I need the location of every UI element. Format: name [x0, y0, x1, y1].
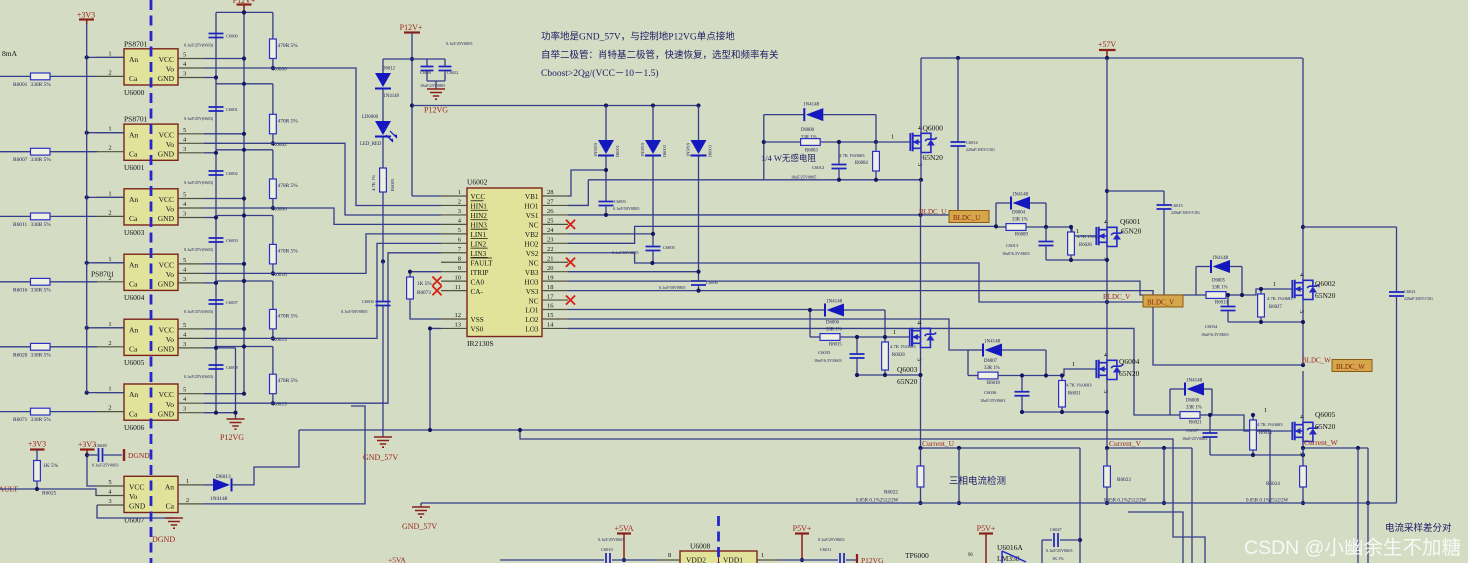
svg-text:1N4148: 1N4148	[803, 103, 820, 108]
pin 3 stub U6001	[178, 152, 204, 154]
node C6037 top	[1208, 413, 1212, 417]
svg-text:27: 27	[547, 199, 554, 206]
svg-text:C6010: C6010	[601, 547, 614, 552]
wire decoupling chain vertical x=216	[215, 12, 217, 412]
svg-text:C6001: C6001	[226, 107, 238, 112]
node rail/+12V bus row U6001	[242, 82, 246, 86]
node R6034 bottom	[1251, 453, 1255, 457]
optocoupler U6003 PS8701 body	[124, 189, 178, 225]
svg-text:An: An	[165, 483, 174, 492]
wire P12VG rail y=105.5	[412, 105, 699, 107]
pin 4 stub U6004	[178, 272, 204, 274]
no-connect X pin 10	[432, 277, 441, 286]
node Q6002 source / rail	[1301, 320, 1305, 324]
svg-text:HO1: HO1	[525, 203, 539, 211]
pin 10 (CA0) U6002	[441, 280, 467, 282]
svg-text:10uF/25V0805: 10uF/25V0805	[420, 83, 445, 88]
svg-text:330R 5%: 330R 5%	[31, 222, 52, 228]
node R6014 / Vo wire	[271, 336, 275, 340]
svg-text:Ca: Ca	[129, 74, 138, 83]
resistor R6005 4.7K 1%	[382, 138, 384, 169]
node C6036 bottom	[1020, 410, 1024, 414]
wire U6007 Ca run	[204, 406, 365, 504]
svg-text:1N5819: 1N5819	[686, 142, 691, 157]
net label BLDC_U (boxed)	[949, 211, 989, 223]
node P12V+ junction	[242, 10, 246, 14]
pin 1 stub U6006	[97, 392, 124, 394]
svg-text:13: 13	[455, 322, 462, 329]
pin 16 (LO1) U6002	[542, 309, 568, 311]
pin 5 stub U6007	[97, 485, 124, 487]
wire Q6005 gate right node	[1211, 389, 1213, 415]
svg-text:0.1uF/50V0805: 0.1uF/50V0805	[659, 285, 685, 290]
resistor R6021 33R 1%	[1170, 414, 1180, 416]
svg-text:C6036: C6036	[984, 390, 997, 395]
svg-text:GND: GND	[158, 74, 175, 83]
no-connect X pin 17	[566, 295, 575, 304]
svg-text:Ca: Ca	[129, 280, 138, 289]
optocoupler U6006 PS8701 body	[124, 384, 178, 420]
svg-text:D6013: D6013	[216, 474, 231, 480]
svg-text:R6003: R6003	[805, 149, 818, 154]
capacitor C6006 0.1uF/50V0805	[698, 157, 700, 282]
pin 28 (VB1) U6002	[542, 195, 568, 197]
svg-text:R6022: R6022	[884, 490, 898, 496]
wire U6000 Vo to U6002 HIN1	[204, 68, 441, 206]
svg-text:VCC: VCC	[159, 325, 174, 334]
pin 11 (CA-) U6002	[441, 290, 467, 292]
pin 21 (NC) U6002	[542, 261, 568, 263]
capacitor C6003 0.1uF/50V0805	[605, 157, 607, 202]
node R6028 top	[883, 335, 887, 339]
svg-text:2: 2	[458, 199, 461, 206]
svg-text:An: An	[129, 130, 138, 139]
svg-text:P12VG: P12VG	[861, 556, 884, 563]
svg-text:An: An	[129, 390, 138, 399]
svg-text:LIN1: LIN1	[471, 231, 487, 239]
wire Q6001 gate jog	[1046, 227, 1096, 236]
node chain / U6006 GND	[214, 411, 218, 415]
svg-text:D6002: D6002	[662, 145, 667, 157]
node +57V / phase V column	[1105, 56, 1109, 60]
pin 8 (FAULT) U6002	[441, 261, 467, 263]
node P5V+ / VDD1	[800, 558, 804, 562]
node C6012 top	[837, 140, 841, 144]
svg-text:1: 1	[108, 50, 111, 57]
pin 9 (ITRIP) U6002	[441, 271, 467, 273]
svg-text:VS1: VS1	[526, 212, 539, 220]
diode D6002 1N5819 (bootstrap)	[652, 106, 654, 141]
svg-text:0.1uF/25V(0603): 0.1uF/25V(0603)	[184, 116, 214, 121]
gate driver U6002 IR2130S body	[467, 188, 542, 337]
svg-text:VB1: VB1	[525, 193, 539, 201]
no-connect X pin 25	[566, 220, 575, 229]
svg-text:C6014: C6014	[966, 140, 979, 145]
node LO1 entry	[808, 308, 812, 312]
svg-text:1: 1	[186, 478, 189, 485]
resistor R6014 470R 5%	[272, 281, 274, 309]
svg-text:1: 1	[1273, 281, 1276, 288]
capacitor C6005 0.1uF/50V0805	[652, 157, 654, 247]
svg-text:25: 25	[547, 218, 554, 225]
wire HO3 net (pin19 to Q6002 gate network)	[568, 281, 1196, 295]
wire Q6001 gate left node	[995, 203, 997, 227]
svg-text:C6003: C6003	[614, 199, 627, 204]
wire VB1 net (pin28 to D6001)	[568, 170, 606, 196]
svg-text:C6022: C6022	[447, 70, 458, 75]
svg-text:0.1uF/25V(0603): 0.1uF/25V(0603)	[184, 43, 214, 48]
svg-text:R6031: R6031	[1068, 392, 1081, 397]
wire P5V+ stem (op-amp)	[985, 534, 987, 563]
wire +5VA stem	[623, 534, 625, 561]
svg-text:C6034: C6034	[1205, 324, 1218, 329]
wire Q6001 source rail y=260	[1046, 259, 1107, 261]
capacitor C6012 10uF/25V0805	[838, 142, 840, 165]
svg-text:VDD1: VDD1	[723, 556, 743, 563]
svg-text:三相电流检测: 三相电流检测	[949, 475, 1006, 487]
svg-text:15: 15	[547, 312, 554, 319]
no-connect X pin 11	[432, 286, 441, 295]
ground GND_57V (rail left end)	[420, 503, 422, 507]
node R6019 / Vo wire	[271, 401, 275, 405]
svg-text:1: 1	[1072, 361, 1075, 368]
svg-text:U6004: U6004	[124, 293, 145, 302]
wire Current_V row	[1107, 447, 1192, 449]
svg-text:3: 3	[916, 358, 923, 361]
svg-text:26: 26	[547, 208, 554, 215]
node P12VG rail	[410, 103, 414, 107]
wire Current_W row	[1303, 447, 1368, 449]
svg-text:U6006: U6006	[124, 423, 145, 432]
resistor R6001 330R 5%	[0, 75, 97, 77]
svg-text:VS3: VS3	[526, 288, 539, 296]
svg-text:R6073: R6073	[417, 290, 431, 296]
node HO2 entry	[994, 224, 998, 228]
svg-text:0.1uF/25V0603: 0.1uF/25V0603	[446, 41, 472, 46]
svg-text:GND: GND	[158, 150, 175, 159]
no-connect X pin 21	[566, 258, 575, 267]
node P12V+ / +12V row	[410, 57, 414, 61]
pin 15 (LO2) U6002	[542, 318, 568, 320]
svg-text:R6013: R6013	[1215, 301, 1228, 306]
resistor R6011 330R 5%	[0, 215, 97, 217]
capacitor C6022 10uF/25V0805	[444, 59, 446, 67]
svg-text:HO3: HO3	[525, 278, 539, 286]
pin 20 (VB3) U6002	[542, 271, 568, 273]
svg-text:BLDC_W: BLDC_W	[1302, 357, 1331, 365]
svg-text:Q6001: Q6001	[1120, 217, 1141, 226]
svg-text:3: 3	[183, 71, 186, 78]
pin 1 stub U6004	[97, 262, 124, 264]
svg-text:5: 5	[183, 192, 186, 199]
svg-text:P12VG: P12VG	[424, 106, 448, 115]
svg-text:28: 28	[547, 189, 554, 196]
svg-text:BLDC_V: BLDC_V	[1147, 299, 1174, 307]
wire Q6003 gate	[885, 336, 910, 338]
node R6031 bottom	[1060, 410, 1064, 414]
svg-text:1: 1	[108, 321, 111, 328]
svg-text:NC: NC	[529, 222, 539, 230]
wire An of U6001 to +3V3 bus	[87, 132, 124, 134]
pin 6 (LIN2) U6002	[441, 242, 467, 244]
svg-text:C6013: C6013	[1006, 243, 1019, 248]
svg-text:VCC: VCC	[159, 195, 174, 204]
wire GND_57V rail y=503	[421, 502, 1397, 504]
node Current_W / signal riser	[1356, 446, 1360, 450]
svg-text:U6001: U6001	[124, 163, 145, 172]
svg-text:Ca: Ca	[166, 502, 175, 511]
svg-text:GND: GND	[158, 280, 175, 289]
node BLDC_V phase column	[1105, 300, 1109, 304]
resistor R6016 330R 5%	[0, 281, 97, 283]
pin 2 stub U6003	[97, 215, 124, 217]
wire P12VG drop vertical x=235.5	[235, 348, 237, 419]
svg-text:VB3: VB3	[525, 269, 539, 277]
svg-text:2: 2	[108, 340, 111, 347]
node R6022 / GND rail	[918, 501, 922, 505]
svg-text:5: 5	[183, 127, 186, 134]
svg-text:An: An	[129, 195, 138, 204]
capacitor C6047 0.1uF/25V0603	[1041, 540, 1043, 563]
svg-text:470R 5%: 470R 5%	[278, 313, 299, 319]
node rail/+12V bus row U6006	[242, 344, 246, 348]
pin 19 (HO3) U6002	[542, 280, 568, 282]
svg-text:2: 2	[108, 209, 111, 216]
svg-text:DGND: DGND	[152, 535, 175, 544]
svg-text:D6003: D6003	[708, 144, 713, 157]
node FAULT / LED chain	[381, 259, 385, 263]
wire HO2 net (pin23 to Q6001 gate network)	[568, 226, 996, 243]
pin 1 stub U6001	[97, 132, 124, 134]
svg-text:GND: GND	[158, 214, 175, 223]
svg-text:C6035: C6035	[818, 350, 831, 355]
svg-text:0.1uF/25V0603: 0.1uF/25V0603	[1046, 548, 1072, 553]
svg-text:VS2: VS2	[526, 250, 539, 258]
wire Q6004 gate right node	[1045, 350, 1047, 376]
pin 3 stub U6004	[178, 282, 204, 284]
capacitor C6013 10uF/6.3V/0603	[1045, 227, 1047, 242]
node chain / U6004 GND	[214, 281, 218, 285]
node D6000/R6003 left	[762, 140, 766, 144]
svg-text:BLDC_U: BLDC_U	[919, 208, 946, 216]
resistor R6023 0.05R 0.1% 2512 2W	[1106, 448, 1108, 466]
svg-text:CSDN @小幽余生不加糖: CSDN @小幽余生不加糖	[1244, 537, 1461, 559]
pin 7 (LIN3) U6002	[441, 252, 467, 254]
svg-text:R6021: R6021	[1189, 421, 1202, 426]
svg-text:220nF/100V/C0G: 220nF/100V/C0G	[1171, 210, 1200, 215]
svg-text:+3V3: +3V3	[78, 440, 96, 449]
wire Q6005 source	[1302, 442, 1304, 449]
node +12V bus / U6000 VCC	[242, 56, 246, 60]
svg-text:D6004: D6004	[1012, 211, 1026, 216]
svg-text:65N20: 65N20	[1121, 227, 1142, 236]
svg-text:3: 3	[1102, 390, 1109, 393]
diode D6000 1N4148	[764, 114, 805, 116]
pin 3 stub U6003	[178, 217, 204, 219]
svg-text:8mA: 8mA	[2, 49, 18, 58]
node +12V bus / U6001 VCC	[242, 132, 246, 136]
pin 3 stub U6006	[178, 412, 204, 414]
svg-text:NC: NC	[529, 297, 539, 305]
svg-text:Vo: Vo	[129, 492, 137, 501]
pin 5 stub U6000	[178, 58, 204, 60]
svg-text:U6003: U6003	[124, 228, 145, 237]
wire VB2 net (pin24 to D6002)	[568, 233, 653, 235]
svg-text:C6004: C6004	[362, 299, 375, 304]
svg-text:R6020: R6020	[13, 352, 28, 358]
svg-text:3: 3	[1298, 310, 1305, 313]
resistor R6025 1K 5%	[36, 450, 38, 461]
node R6028 bottom	[883, 373, 887, 377]
node C6015 tap	[1105, 189, 1109, 193]
svg-text:65N20: 65N20	[1315, 291, 1336, 300]
svg-text:3: 3	[183, 146, 186, 153]
pin 3 (HIN2) U6002	[441, 214, 467, 216]
svg-text:D6012: D6012	[382, 67, 396, 72]
digital isolator U6008 body	[680, 551, 757, 563]
wire top rail y=12 to 470R column	[216, 11, 273, 13]
pin 25 (NC) U6002	[542, 223, 568, 225]
svg-text:470R 5%: 470R 5%	[278, 248, 299, 254]
node rail/+12V bus row U6005	[242, 279, 246, 283]
node +57V / C6014	[956, 56, 960, 60]
node +3V3 bus / U6001 An	[85, 131, 89, 135]
pin 3 stub U6005	[178, 347, 204, 349]
svg-text:PS8701: PS8701	[124, 39, 148, 48]
node VS1 / C6003	[604, 213, 608, 217]
node +12V bus / U6004 VCC	[242, 262, 246, 266]
resistor R6000 470R 5%	[272, 12, 274, 39]
svg-text:19: 19	[547, 274, 554, 281]
transistor Q6002 65N20 (high side W)	[1292, 280, 1319, 300]
svg-text:自举二极管：肖特基二极管，快速恢复，选型和频率有关: 自举二极管：肖特基二极管，快速恢复，选型和频率有关	[541, 49, 779, 61]
node GND run / VS0 drop	[428, 428, 432, 432]
wire Q6001 drain from +57V	[1106, 58, 1108, 227]
node Q6000 source / rail	[919, 178, 923, 182]
svg-text:BLDC_U: BLDC_U	[953, 214, 980, 222]
svg-text:3: 3	[183, 211, 186, 218]
diode D6006 1N4148	[810, 309, 825, 311]
node BLDC_W phase column	[1301, 363, 1305, 367]
svg-text:0.1uF/25V0603: 0.1uF/25V0603	[818, 537, 844, 542]
svg-text:11: 11	[455, 284, 461, 291]
svg-text:4.7K 1%: 4.7K 1%	[371, 174, 376, 191]
node chain / U6003 GND	[214, 215, 218, 219]
pin 2 stub U6005	[97, 346, 124, 348]
node Q6002 gate net	[1240, 293, 1244, 297]
svg-text:+5VA: +5VA	[614, 524, 633, 533]
capacitor C6002 0.1uF/25V(0603)	[209, 171, 224, 175]
svg-text:U6007: U6007	[124, 515, 145, 524]
wire Q6002 source	[1302, 300, 1304, 366]
resistor R6019 470R 5%	[272, 347, 274, 375]
optocoupler U6001 PS8701 body	[124, 124, 178, 160]
svg-text:GND_57V: GND_57V	[363, 453, 398, 462]
ground P12VG (left)	[227, 419, 245, 429]
svg-text:GND: GND	[158, 345, 175, 354]
svg-text:An: An	[129, 55, 138, 64]
transistor Q6005 65N20 (low side W)	[1292, 422, 1319, 442]
svg-text:330R 5%: 330R 5%	[31, 287, 52, 293]
pin 2 (HIN1) U6002	[441, 204, 467, 206]
wire VDD2 feed	[500, 559, 604, 561]
node BLDC_V / C6015	[1162, 300, 1166, 304]
node VS0	[428, 326, 432, 330]
svg-text:An: An	[129, 260, 138, 269]
wire P12V+ stem	[243, 5, 245, 13]
wire Current_U row	[921, 447, 1081, 449]
wire GND of U6006 to P12VG drop	[204, 412, 236, 414]
svg-text:An: An	[129, 325, 138, 334]
svg-text:8: 8	[458, 255, 461, 262]
svg-text:20: 20	[547, 265, 554, 272]
svg-text:1N4148: 1N4148	[1012, 193, 1029, 198]
wire +57V stem	[1106, 50, 1108, 58]
node R6027 bottom	[1259, 320, 1263, 324]
svg-text:33R 1%: 33R 1%	[1212, 286, 1228, 291]
wire +3V3 anode bus x=86.7	[86, 24, 88, 393]
wire Q6002 gate jog	[1242, 289, 1292, 295]
wire HO1 net (pin27 to Q6000 gate network)	[568, 180, 588, 206]
node Current_U / sense	[918, 446, 922, 450]
svg-text:3: 3	[916, 163, 923, 166]
pin 22 (VS2) U6002	[542, 252, 568, 254]
svg-text:R6028: R6028	[892, 353, 905, 358]
svg-text:1N4148: 1N4148	[826, 300, 843, 305]
node C6036 top	[1020, 373, 1024, 377]
wire GND run y=430	[299, 430, 1270, 503]
wire Q6004 drain	[1106, 302, 1108, 360]
pin 26 (VS1) U6002	[542, 214, 568, 216]
svg-text:BLDC_W: BLDC_W	[1336, 363, 1365, 371]
svg-text:0.1uF/25V(0603): 0.1uF/25V(0603)	[184, 309, 214, 314]
node FAULT / R6025	[35, 487, 39, 491]
pin 4 (HIN3) U6002	[441, 223, 467, 225]
wire Q6002 gate right node	[1241, 267, 1243, 296]
pin 4 stub U6003	[178, 207, 204, 209]
svg-text:P5V+: P5V+	[793, 524, 812, 533]
pin 2 stub U6007	[178, 503, 204, 505]
pin 4 stub U6000	[178, 67, 204, 69]
capacitor C6037 10uF/25V0603	[1209, 415, 1211, 433]
node C6021 tap	[1301, 225, 1305, 229]
svg-text:5: 5	[458, 227, 461, 234]
svg-text:330R 5%: 330R 5%	[31, 417, 52, 423]
wire Q6004 source rail y=412	[1022, 411, 1107, 413]
pin 3 stub U6007	[97, 504, 124, 506]
node +3V3 / C6049	[85, 453, 89, 457]
node R6027 top	[1259, 287, 1263, 291]
diode D6005 1N4148	[1196, 266, 1211, 268]
svg-text:C6012: C6012	[812, 165, 825, 170]
svg-text:LD6000: LD6000	[362, 115, 379, 120]
wire Current_U signal riser	[1079, 448, 1081, 563]
node GND run / secondary	[518, 428, 522, 432]
wire VB3 net (pin20 to D6003)	[568, 271, 699, 273]
svg-text:1N4148: 1N4148	[1186, 379, 1203, 384]
node R6002 / Vo wire	[271, 141, 275, 145]
svg-text:U6002: U6002	[467, 178, 488, 187]
pin 1 (VCC) U6002	[441, 195, 467, 197]
wire Q6003 gate left node	[809, 310, 811, 337]
svg-text:Q6004: Q6004	[1119, 357, 1140, 366]
power symbol P12VG (bar, bottom)	[856, 554, 858, 563]
svg-text:+3V3: +3V3	[28, 440, 46, 449]
wire Q6004 gate left node	[967, 350, 969, 376]
capacitor C6004 0.1uF/50V0805	[382, 262, 384, 302]
net label BLDC_W (boxed)	[1332, 360, 1372, 372]
wire VCC of U6000 to +12V bus	[204, 58, 244, 60]
